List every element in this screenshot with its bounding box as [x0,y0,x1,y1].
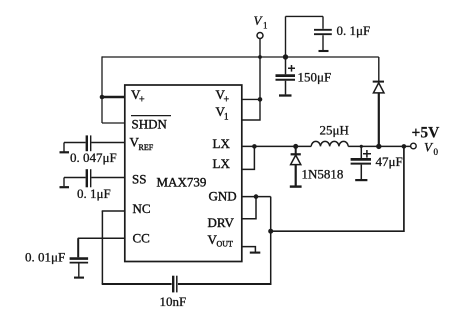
svg-text:GND: GND [209,189,237,204]
svg-text:LX: LX [213,136,231,151]
svg-text:10nF: 10nF [160,294,187,309]
svg-text:1N5818: 1N5818 [302,167,344,182]
svg-text:SHDN: SHDN [132,117,168,132]
svg-text:NC: NC [133,201,151,216]
svg-text:0. 047μF: 0. 047μF [70,150,117,165]
svg-text:0. 1μF: 0. 1μF [77,186,111,201]
svg-text:0. 1μF: 0. 1μF [337,23,371,38]
svg-text:1: 1 [263,21,268,31]
svg-text:47μF: 47μF [376,154,403,169]
svg-text:MAX739: MAX739 [157,175,207,190]
svg-text:REF: REF [139,143,154,152]
svg-text:150μF: 150μF [298,70,332,85]
svg-text:LX: LX [213,156,231,171]
svg-text:SS: SS [132,172,146,187]
svg-text:0: 0 [434,147,439,157]
svg-text:+: + [139,95,145,106]
svg-text:CC: CC [133,231,150,246]
svg-text:DRV: DRV [208,215,235,230]
svg-text:0. 01μF: 0. 01μF [25,250,65,265]
svg-text:OUT: OUT [217,240,234,249]
svg-text:1: 1 [224,112,229,122]
svg-text:25μH: 25μH [320,123,349,138]
